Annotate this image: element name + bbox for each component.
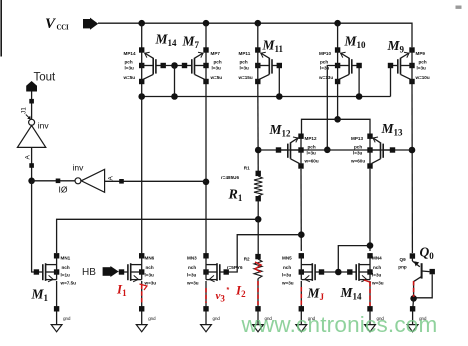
svg-text:MN5: MN5: [282, 256, 292, 261]
ground (MN3): [201, 311, 221, 332]
junction on rail at M7: [203, 20, 210, 27]
svg-text:M14: M14: [340, 285, 363, 302]
junction M9 drain / mirror bus: [409, 147, 416, 154]
wire R1/R2 node down: [257, 219, 259, 254]
svg-text:nch: nch: [373, 265, 381, 270]
wire diode bus y=96.5: [142, 96, 391, 98]
transistor M13 (PMOS): [350, 134, 395, 169]
svg-text:pch: pch: [354, 144, 362, 149]
wire inverter node down to M1 gate: [32, 181, 34, 272]
ground (M1): [51, 311, 71, 332]
svg-text:w=7.5u: w=7.5u: [60, 281, 77, 286]
wire M7 drain down to node A: [205, 84, 207, 253]
svg-text:pch: pch: [240, 59, 248, 64]
transistor Q0 (PNP): [398, 253, 435, 298]
wire MN5 source down: [300, 281, 302, 311]
wire (left edge artifact): [0, 0, 2, 57]
junction on rail at M11: [254, 20, 261, 27]
resistor R1: [221, 166, 262, 220]
svg-text:l=3u: l=3u: [307, 151, 317, 156]
wire R1 bottom to M1 drain: [57, 219, 259, 253]
svg-text:A: A: [25, 155, 32, 160]
svg-text:MP14: MP14: [124, 51, 136, 56]
transistor MN3 (NMOS): [186, 253, 229, 286]
pin square MN5 source: [299, 306, 304, 311]
svg-text:I1: I1: [116, 282, 127, 299]
pin square MN6 source: [139, 306, 144, 311]
wire R2 bottom (red marked): [257, 279, 259, 311]
svg-text:nch: nch: [188, 265, 196, 270]
svg-text:M12: M12: [269, 122, 292, 139]
watermark www.cntronics.com: [242, 312, 438, 338]
svg-text:l=3u: l=3u: [145, 273, 155, 278]
pin square on IO output: [56, 179, 61, 184]
svg-text:R2: R2: [244, 257, 250, 262]
svg-text:l=3u: l=3u: [282, 273, 292, 278]
wire MN6 source down: [141, 281, 143, 311]
svg-text:V: V: [45, 16, 57, 32]
terminal HB: [82, 266, 119, 278]
svg-text:MP10: MP10: [319, 51, 331, 56]
svg-text:HB: HB: [82, 267, 96, 278]
junction bulk tap on mirror bus: [324, 147, 331, 154]
junction Q0 base/collector: [410, 295, 417, 302]
svg-text:w=3u: w=3u: [371, 281, 384, 286]
pin square on J1 input: [29, 163, 34, 168]
mark top-right: [456, 6, 462, 9]
wire VCC top rail: [98, 23, 412, 47]
pin square Q0 bottom: [410, 306, 415, 311]
svg-text:pch: pch: [308, 144, 316, 149]
wire node to IO output: [32, 180, 75, 182]
wire M10 bulk tap down: [327, 66, 336, 150]
wire M10 drain down: [337, 84, 339, 119]
junction M12 drain / MN3 gate tap: [298, 231, 305, 238]
inverter I0: [59, 163, 105, 195]
wire red trace MN5 source: [300, 287, 302, 306]
pin J1 square: [29, 99, 34, 104]
wire M10 gate down: [358, 66, 360, 97]
svg-text:l=3u: l=3u: [187, 273, 197, 278]
svg-text:l=3u: l=3u: [417, 66, 427, 71]
svg-text:l=3u: l=3u: [353, 151, 363, 156]
svg-text:inv: inv: [73, 163, 85, 173]
svg-text:r=5PY6: r=5PY6: [227, 265, 243, 270]
transistor M12 (PMOS): [276, 134, 319, 169]
pin square M1 source: [54, 306, 59, 311]
svg-text:pch: pch: [419, 59, 427, 64]
wire red trace Q0: [413, 281, 415, 297]
pin square MN3 source: [203, 306, 208, 311]
pin square R2 bottom: [255, 306, 260, 311]
svg-text:MP12: MP12: [305, 136, 317, 141]
svg-text:l=3u: l=3u: [320, 66, 330, 71]
wire M1 source down: [56, 281, 58, 311]
svg-text:M10: M10: [344, 34, 367, 51]
svg-text:I2: I2: [235, 283, 246, 300]
svg-text:l=1u: l=1u: [61, 273, 71, 278]
svg-text:gnd: gnd: [213, 316, 221, 321]
wire gate node down: [174, 66, 176, 97]
inverter J1: [17, 115, 49, 148]
ground (Q0): [407, 311, 427, 332]
ground (R2): [253, 311, 273, 332]
svg-text:w=60u: w=60u: [304, 158, 319, 163]
junction node A on M7 drain: [203, 179, 210, 186]
wire red trace MN4 source: [369, 282, 371, 306]
svg-text:nch: nch: [283, 265, 291, 270]
svg-text:J1: J1: [21, 107, 28, 114]
wire inverter J1 input: [31, 147, 33, 180]
svg-text:A: A: [108, 176, 115, 181]
red marks on R2: [255, 262, 261, 272]
svg-text:w=3u: w=3u: [186, 281, 199, 286]
junction on rail at M10: [334, 20, 341, 27]
svg-text:MN1: MN1: [61, 256, 71, 261]
wire M11 source: [257, 23, 259, 48]
red tick MN4: [364, 280, 371, 283]
svg-text:M13: M13: [381, 121, 404, 138]
svg-text:gnd: gnd: [63, 316, 71, 321]
wire M7 source: [205, 23, 207, 48]
wire MN3 source down: [205, 281, 207, 311]
svg-text:l=3u: l=3u: [240, 66, 250, 71]
svg-text:pch: pch: [320, 59, 328, 64]
junction shared gate: [335, 269, 342, 276]
svg-text:pnp: pnp: [398, 264, 407, 269]
svg-text:w=5u: w=5u: [210, 75, 223, 80]
ground (MN4): [365, 311, 385, 332]
wire M9 gate down: [390, 66, 392, 97]
wire MN4 source down: [369, 281, 371, 311]
wire red trace MN6 source: [141, 285, 143, 304]
transistor MN6 (NMOS): [119, 253, 157, 286]
transistor M1 (NMOS): [34, 253, 76, 286]
svg-text:MP13: MP13: [351, 136, 363, 141]
svg-text:l=3u: l=3u: [125, 66, 135, 71]
wire M10 source: [337, 23, 339, 48]
svg-text:MP7: MP7: [211, 51, 221, 56]
junction M11 gate on bus: [276, 93, 283, 100]
wire Q0 to ground: [413, 298, 414, 311]
pin square node A: [119, 179, 124, 184]
terminal Tout: [26, 72, 56, 92]
wire M13 drain down: [369, 169, 371, 251]
svg-text:Q9: Q9: [400, 257, 407, 262]
junction inverter node: [28, 178, 35, 185]
wire red trace MN3 source: [205, 288, 207, 303]
junction R1 bottom: [255, 216, 262, 223]
svg-text:M1: M1: [31, 287, 49, 304]
svg-text:MN6: MN6: [145, 256, 155, 261]
svg-text:w=60u: w=60u: [350, 158, 365, 163]
svg-text:l=3u: l=3u: [212, 66, 222, 71]
junction on rail at M14: [138, 20, 145, 27]
svg-text:inv: inv: [38, 121, 50, 131]
junction M14/M7 gate on bus: [171, 93, 178, 100]
pin square MN4 source: [367, 306, 372, 311]
svg-text:*: *: [227, 287, 230, 294]
wire IO input from node A: [105, 180, 206, 182]
svg-text:R1: R1: [228, 188, 243, 204]
svg-text:w=3u: w=3u: [281, 281, 294, 286]
wire M11 drain down to R1: [257, 84, 259, 171]
svg-text:Q0: Q0: [420, 245, 435, 262]
transistor MN5 (NMOS): [281, 253, 324, 286]
svg-text:v3: v3: [216, 290, 226, 304]
svg-text:Tout: Tout: [34, 72, 57, 84]
wire MN5/MN4 shared gate: [322, 271, 350, 273]
ground (MN6): [136, 311, 156, 332]
svg-text:pch: pch: [125, 59, 133, 64]
wire M14 source: [141, 23, 143, 48]
svg-text:w=10u: w=10u: [415, 75, 430, 80]
svg-text:MP9: MP9: [416, 51, 426, 56]
svg-text:gnd: gnd: [148, 316, 156, 321]
wire M9 drain down to Q0: [411, 84, 413, 253]
wire M12 drain down: [300, 169, 302, 251]
wire cascode sources y=119: [302, 119, 371, 133]
node VCC label: [45, 16, 69, 32]
wire mirror bus y=150: [258, 149, 412, 151]
resistor R2: [227, 254, 262, 279]
transistor MN4 (NMOS): [347, 253, 384, 286]
svg-text:MJ: MJ: [307, 286, 325, 303]
svg-text:w=5u: w=5u: [123, 75, 136, 80]
svg-text:M7: M7: [182, 34, 200, 51]
wire M13 drain to mirror gates: [338, 246, 370, 270]
svg-text:R1: R1: [244, 166, 250, 171]
junction M10 drain: [334, 116, 341, 123]
VCC terminal arrow: [83, 18, 98, 30]
wire Tout to J1: [31, 92, 33, 120]
svg-text:M9: M9: [387, 38, 405, 55]
svg-text:nch: nch: [146, 265, 154, 270]
svg-text:MP11: MP11: [239, 51, 251, 56]
junction M10 gate on bus: [356, 93, 363, 100]
svg-text:IØ: IØ: [59, 185, 68, 195]
svg-text:nch: nch: [62, 265, 70, 270]
red tick MN6: [140, 284, 148, 290]
wire shared gate M14/M7: [163, 65, 184, 67]
wire M14 drain down to MN6: [141, 84, 143, 253]
svg-text:l=3u: l=3u: [372, 273, 382, 278]
svg-text:CCI: CCI: [57, 24, 70, 32]
wire M11 gate down: [278, 66, 280, 97]
svg-text:MN4: MN4: [372, 256, 382, 261]
svg-text:r=485U6: r=485U6: [221, 175, 239, 180]
svg-text:w=13u: w=13u: [318, 75, 333, 80]
svg-text:M14: M14: [155, 32, 178, 49]
svg-text:pch: pch: [214, 59, 222, 64]
svg-text:MN3: MN3: [187, 256, 197, 261]
svg-text:M11: M11: [262, 38, 284, 55]
transistor M11 (PMOS): [238, 47, 283, 84]
transistor M7 (PMOS): [182, 47, 223, 84]
svg-text:w=15u: w=15u: [238, 75, 253, 80]
junction gate node M14/M7: [171, 62, 178, 69]
transistor M9 (PMOS): [388, 47, 430, 84]
wire HB to MN6 gate: [119, 271, 122, 273]
ground (MN5): [296, 311, 316, 332]
transistor M10 (PMOS): [318, 47, 362, 84]
transistor M14 (PMOS): [123, 47, 166, 84]
junction M13 drain: [367, 242, 374, 249]
wire MN3 gate to M12 drain: [227, 235, 302, 272]
junction M11 drain / mirror bus: [255, 147, 262, 154]
junction M14 drain: [138, 93, 145, 100]
svg-text:w=3u: w=3u: [144, 281, 157, 286]
wire red trace R2: [257, 281, 259, 305]
